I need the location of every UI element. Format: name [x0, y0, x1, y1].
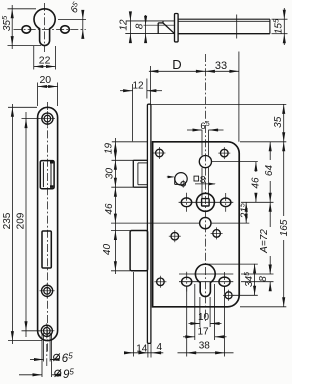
svg-text:165: 165 — [279, 219, 290, 236]
svg-text:235: 235 — [2, 212, 13, 229]
svg-text:12: 12 — [132, 81, 144, 92]
svg-text:33: 33 — [215, 60, 227, 72]
svg-text:30: 30 — [105, 168, 116, 180]
svg-text:209: 209 — [16, 212, 27, 229]
svg-text:46: 46 — [250, 177, 261, 189]
svg-text:38: 38 — [199, 341, 211, 352]
svg-text:D: D — [172, 57, 181, 72]
svg-text:20: 20 — [39, 74, 51, 86]
svg-text:8: 8 — [258, 276, 269, 282]
svg-text:95: 95 — [63, 367, 74, 380]
svg-text:155: 155 — [272, 18, 285, 34]
svg-text:65: 65 — [62, 351, 73, 364]
svg-text:A=72: A=72 — [259, 229, 270, 254]
svg-text:8: 8 — [135, 23, 146, 29]
svg-text:40: 40 — [102, 244, 113, 256]
svg-text:215: 215 — [240, 203, 251, 219]
svg-text:35: 35 — [273, 116, 284, 128]
svg-text:12: 12 — [119, 19, 130, 31]
svg-text:22: 22 — [39, 54, 51, 66]
svg-text:17: 17 — [197, 326, 209, 337]
svg-text:19: 19 — [104, 143, 115, 155]
svg-text:64: 64 — [264, 165, 275, 177]
svg-text:46: 46 — [104, 203, 115, 215]
svg-text:14: 14 — [136, 343, 148, 354]
svg-text:4: 4 — [157, 342, 163, 353]
svg-text:8: 8 — [200, 174, 206, 186]
svg-text:10: 10 — [198, 312, 210, 323]
svg-text:65: 65 — [67, 0, 84, 16]
